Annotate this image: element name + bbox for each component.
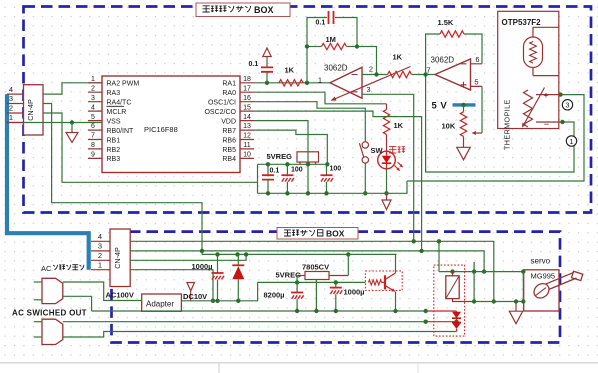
capacitor C2 0.1 (feedback): [316, 11, 334, 27]
wire: op1 pin2 to pot: [362, 74, 388, 76]
wire: relay bottom column: [473, 272, 475, 302]
capacitor C7 8200u: [264, 282, 304, 311]
wire: 7805 in: [297, 276, 305, 283]
wire: VDD net to 5VREG: [254, 121, 308, 165]
svg-text:3062D: 3062D: [324, 64, 348, 73]
svg-text:1: 1: [98, 260, 102, 269]
svg-text:14: 14: [243, 114, 251, 121]
wire: opto return row: [63, 332, 457, 338]
optocoupler LEDs: [452, 311, 461, 332]
label servo: [531, 257, 551, 266]
svg-text:1K: 1K: [285, 66, 295, 75]
junction thermo+: [558, 92, 562, 96]
junction opto row2: [424, 320, 459, 324]
wire: CN2 pin2 row: [130, 254, 246, 260]
label 5VREG(2): [276, 270, 302, 279]
wire: thick blue bundle CN1-CN2: [7, 94, 89, 270]
svg-text:1000µ: 1000µ: [192, 262, 213, 271]
svg-text:4: 4: [91, 104, 95, 111]
wire: CN2 pin1 row: [130, 270, 213, 301]
wire: CN1 pin4 to PIC pin1: [43, 83, 102, 94]
node mark 3: [562, 100, 572, 110]
svg-text:RA4/TC: RA4/TC: [107, 100, 132, 107]
junction net18 fb: [305, 81, 309, 85]
svg-text:3: 3: [565, 101, 569, 110]
svg-text:16: 16: [243, 95, 251, 102]
svg-text:18: 18: [243, 76, 251, 83]
wire: CN1 pin3 down to power box: [43, 104, 202, 251]
svg-text:2: 2: [91, 86, 95, 93]
svg-text:7805CV: 7805CV: [302, 263, 329, 272]
wire: SW to bus: [364, 163, 366, 193]
op-amp U1 3062D: [318, 64, 373, 99]
op-amp U2 3062D: [426, 55, 479, 90]
wire: 7805 out to 5V rail: [329, 254, 348, 275]
label AC outlet: [41, 264, 84, 273]
supply DC10V arrow: [187, 283, 195, 301]
ground symbol (10K): [457, 147, 470, 160]
svg-text:Adapter: Adapter: [146, 299, 174, 308]
CN2 pin stubs: [91, 232, 110, 270]
relay/opto dotted box: [434, 265, 465, 336]
capacitor C8 1000u: [330, 282, 365, 311]
IC pin numbers: [91, 76, 251, 159]
svg-text:6: 6: [475, 55, 479, 64]
diode D1: [232, 254, 244, 300]
wire: net17 to R3: [254, 92, 387, 104]
svg-text:VSS: VSS: [107, 118, 121, 125]
label OTP537F2: [502, 18, 542, 27]
wire: plug2 stubs: [34, 322, 42, 337]
label AC SWICHED OUT: [12, 309, 87, 318]
5V supply: [432, 101, 476, 112]
svg-text:5: 5: [91, 114, 95, 121]
wire: collector to 5V rail: [395, 254, 397, 273]
Adapter body: [142, 294, 182, 311]
sensor OTP537F2 body: [498, 11, 559, 128]
svg-text:1: 1: [91, 76, 95, 83]
svg-text:RB1: RB1: [107, 137, 121, 144]
svg-text:RB4: RB4: [222, 156, 236, 163]
thermopile element: [522, 88, 545, 128]
wire: net RA1 row: [254, 82, 330, 84]
svg-text:2: 2: [369, 65, 373, 74]
svg-text:RB5: RB5: [222, 147, 236, 154]
wire: servo bottom row: [474, 301, 524, 303]
svg-text:5 V: 5 V: [432, 101, 448, 112]
wire: VSS ground net: [7, 122, 103, 124]
wire: plug1 stubs: [34, 282, 42, 300]
capacitor C5 100: [321, 164, 342, 193]
svg-text:4: 4: [98, 232, 102, 241]
svg-text:2: 2: [9, 104, 13, 113]
svg-text:7: 7: [426, 66, 430, 75]
wire: op2 pin5 to pot wiper: [472, 86, 483, 135]
svg-text:CN-4P: CN-4P: [26, 99, 35, 121]
switch SW: [359, 142, 383, 163]
IC PIC16F88 pin stubs: [88, 83, 254, 159]
wire: 5V rail row: [202, 251, 397, 255]
svg-text:AC SWICHED OUT: AC SWICHED OUT: [12, 309, 87, 318]
svg-text:BOX: BOX: [254, 5, 274, 15]
wire: CN2 pin3 row: [130, 251, 484, 272]
svg-text:1.5K: 1.5K: [438, 18, 454, 27]
svg-text:MG995: MG995: [531, 272, 556, 281]
servo MG995 body: [524, 270, 559, 311]
wire: 10V row to transistor base: [258, 281, 366, 283]
node mark 1: [566, 136, 576, 146]
relay stubs: [453, 272, 475, 302]
wire: AC100V line: [63, 282, 142, 301]
svg-text:5: 5: [474, 78, 478, 87]
resistor R1 1K: [279, 66, 303, 87]
junction LED bus: [384, 191, 388, 195]
svg-text:+: +: [543, 90, 548, 100]
wire: thermopile + loop: [407, 95, 584, 181]
junction relay row: [450, 269, 525, 273]
svg-text:CN-4P: CN-4P: [113, 247, 122, 269]
svg-text:RB7: RB7: [222, 128, 236, 135]
svg-text:8: 8: [91, 142, 95, 149]
svg-text:1000µ: 1000µ: [344, 288, 365, 297]
thermopile - stub: [536, 119, 563, 129]
label AC100V: [106, 291, 134, 300]
relay body: [446, 276, 459, 299]
label DC10V: [183, 292, 207, 301]
junction VSS: [70, 120, 74, 124]
frame: power-servo BOX dashed border: [112, 232, 561, 343]
wire: CN2 pin4 row: [130, 241, 494, 301]
junction bus: [266, 191, 329, 195]
svg-text:10: 10: [243, 152, 251, 159]
svg-text:RB0/INT: RB0/INT: [107, 128, 135, 135]
AC plug P1: [42, 278, 63, 303]
svg-text:10K: 10K: [442, 122, 456, 131]
servo actuator symbol: [531, 271, 583, 301]
connector CN-4P (power box): [110, 229, 130, 287]
svg-text:RA0: RA0: [222, 90, 236, 97]
svg-text:1K: 1K: [394, 121, 404, 130]
wire: gnd row (power box): [92, 310, 457, 312]
svg-text:9: 9: [91, 152, 95, 159]
wire: relay top row to servo: [439, 271, 524, 273]
svg-text:12: 12: [243, 133, 251, 140]
svg-text:RA3: RA3: [107, 90, 121, 97]
wire: op1 pin3 down to power box: [362, 94, 414, 241]
op2 stubs: [471, 64, 483, 87]
svg-text:1M: 1M: [326, 35, 336, 44]
potentiometer VR1 1K: [331, 53, 411, 101]
ground symbol (servo): [509, 302, 522, 324]
svg-text:RA2 PWM: RA2 PWM: [107, 81, 140, 88]
wire: ground bus row: [258, 181, 408, 193]
svg-text:4: 4: [9, 85, 13, 94]
junction relay bottom: [472, 299, 476, 303]
svg-text:8200µ: 8200µ: [264, 291, 285, 300]
wire: CN1 pin2 to cap bus column: [43, 113, 258, 182]
junction thermo-: [560, 120, 564, 124]
junction 5V rail: [215, 252, 350, 256]
wire: feedback left column: [307, 18, 327, 83]
wire: 5VREG col to bus: [307, 164, 309, 193]
junction node row: [266, 162, 330, 166]
svg-text:THERMOPILE: THERMOPILE: [503, 99, 512, 150]
ground symbol (VSS): [66, 123, 78, 143]
label: sensor BOX title: [196, 3, 290, 17]
junction p3: [200, 249, 496, 304]
wire: AC return to gnd row: [63, 296, 92, 311]
svg-text:6: 6: [91, 123, 95, 130]
svg-text:3: 3: [91, 95, 95, 102]
junction servo row: [514, 299, 526, 303]
svg-text:OTP537F2: OTP537F2: [502, 18, 542, 27]
regulator 7805CV body: [305, 272, 329, 280]
junction op1 pin2: [374, 72, 378, 76]
wire: relay top feed: [438, 241, 440, 271]
junction fb right: [355, 44, 359, 48]
AC plug P2: [42, 319, 63, 344]
junction adapter out: [215, 299, 240, 303]
CN1 pin stubs: [7, 85, 24, 123]
svg-text:VDD: VDD: [221, 118, 236, 125]
supply arrow below bus: [382, 193, 391, 209]
wire: 1.5K feedback: [426, 34, 482, 75]
svg-text:11: 11: [243, 142, 250, 149]
junction 5V: [461, 103, 465, 107]
capacitor C4 100: [281, 164, 302, 193]
svg-text:MCLR: MCLR: [107, 109, 127, 116]
wire: thermopile - loop: [426, 75, 574, 173]
svg-text:100: 100: [330, 166, 342, 173]
potentiometer VR2 10K: [442, 105, 467, 136]
svg-text:RB3: RB3: [107, 156, 121, 163]
label THERMOPILE: [503, 99, 512, 150]
capacitor C6 1000u: [192, 254, 225, 300]
svg-text:3: 3: [366, 85, 370, 94]
wire: 10K to ground: [463, 136, 465, 147]
svg-text:15: 15: [243, 104, 251, 111]
junction net18 cap: [265, 81, 269, 85]
svg-text:13: 13: [243, 123, 251, 130]
svg-text:−: −: [544, 119, 549, 129]
svg-text:3062D: 3062D: [431, 56, 455, 65]
label 5VREG: [267, 152, 293, 161]
wire: cap node row: [258, 164, 328, 193]
svg-text:BOX: BOX: [326, 229, 345, 239]
svg-text:RB6: RB6: [222, 137, 236, 144]
connector CN-4P (sensor box): [24, 85, 44, 135]
resistor R4 1.5K: [438, 18, 464, 37]
window edge line: [0, 363, 598, 373]
svg-text:AC: AC: [41, 264, 52, 273]
wire: adapter out row: [181, 282, 257, 300]
wire: LED to bus: [386, 169, 388, 194]
svg-text:1K: 1K: [393, 53, 403, 62]
wire: feedback right column: [335, 18, 357, 47]
svg-text:SW: SW: [371, 146, 384, 155]
thermistor inside OTP: [524, 27, 559, 75]
supply arrow (C1): [263, 48, 271, 57]
wire: pot to op2 output: [412, 74, 436, 76]
wire: emitter to gnd row: [395, 292, 397, 311]
wire: net13 to node row: [254, 130, 327, 164]
svg-text:0.1: 0.1: [249, 61, 259, 68]
svg-text:1: 1: [9, 113, 13, 122]
svg-text:100: 100: [291, 167, 303, 174]
IC PIC16F88 body: [102, 76, 240, 173]
svg-text:0.1: 0.1: [270, 168, 280, 175]
junction SW bus: [363, 191, 367, 195]
svg-text:7: 7: [91, 133, 95, 140]
resistor R2 1M (feedback): [322, 35, 347, 50]
svg-text:3: 3: [98, 242, 102, 251]
svg-text:DC10V: DC10V: [183, 292, 207, 301]
svg-text:17: 17: [243, 86, 251, 93]
svg-text:PIC16F88: PIC16F88: [144, 125, 178, 134]
junction 10V row: [295, 280, 338, 284]
svg-text:5VREG: 5VREG: [267, 152, 293, 161]
capacitor C3 0.1: [262, 164, 279, 193]
LED D2: [378, 151, 403, 171]
svg-text:AC100V: AC100V: [106, 291, 134, 300]
wire: dark stub: [473, 262, 475, 272]
resistor R3 1K (LED): [383, 104, 403, 152]
wire: feedback to op1 pin2: [357, 47, 377, 75]
junction p4-V1: [412, 239, 442, 243]
svg-text:1: 1: [569, 137, 573, 146]
IC pin labels: [107, 81, 237, 164]
svg-text:0.1: 0.1: [316, 20, 326, 27]
transistor Q1 box: [365, 271, 402, 291]
5VREG stubs: [300, 162, 316, 164]
transistor Q1: [369, 273, 396, 292]
label: power-servo BOX title: [277, 228, 358, 240]
svg-text:OSC1/CI: OSC1/CI: [208, 100, 236, 107]
svg-text:RA1: RA1: [222, 81, 236, 88]
wire: net15 down to power box: [254, 111, 422, 251]
label DENGEN (power): [389, 146, 405, 153]
junction gnd row: [295, 309, 428, 313]
junction fb left: [305, 44, 309, 48]
svg-text:3: 3: [9, 94, 13, 103]
svg-text:OSC2/CO: OSC2/CO: [204, 109, 236, 116]
capacitor C1 0.1: [249, 61, 274, 72]
svg-text:2: 2: [98, 251, 102, 260]
thermopile + stub: [536, 90, 561, 100]
wire: cap C1 to supply: [266, 57, 268, 83]
svg-text:RB2: RB2: [107, 147, 121, 154]
junction op2 out: [423, 72, 427, 76]
wire: 7805 gnd: [315, 280, 317, 312]
svg-text:1: 1: [318, 75, 322, 84]
svg-text:servo: servo: [531, 257, 551, 266]
wire: opto row 2: [63, 321, 457, 323]
label 7805CV: [302, 263, 329, 272]
frame: sensor BOX dashed border: [24, 7, 592, 213]
regulator 5VREG body (sensor box): [297, 152, 319, 162]
junction p1: [211, 299, 215, 303]
wire: servo left column: [522, 272, 524, 302]
wire: feedback 1M branch: [307, 46, 357, 48]
wire: net16 to SW: [254, 102, 365, 142]
label MG995: [531, 272, 556, 281]
